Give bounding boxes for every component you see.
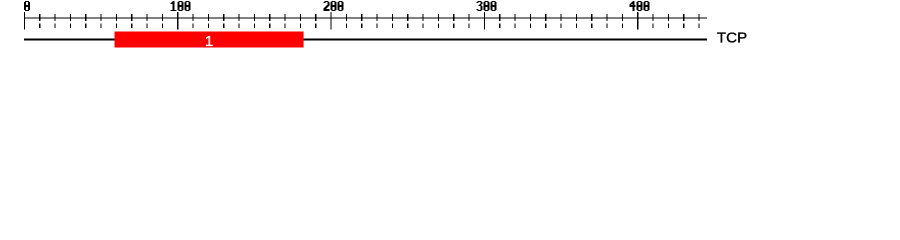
svg-text:TCP: TCP: [717, 30, 747, 47]
TCP segment 1 (red bar): [115, 32, 304, 48]
ruler minor ticks (upper row): [39, 14, 699, 21]
lower minor tick row: [39, 24, 699, 28]
major tick 100: [177, 12, 178, 29]
svg-text:1: 1: [205, 33, 213, 50]
tick label 300: [477, 1, 497, 11]
tick label 400: [630, 1, 650, 11]
tick label 100: [171, 1, 191, 11]
ruler axis line: [24, 18, 707, 19]
tick label 200: [324, 1, 344, 11]
flow baseline: [24, 39, 707, 41]
major tick 300: [484, 12, 485, 29]
major tick 200: [331, 12, 332, 29]
tick label 0: [24, 1, 30, 11]
major tick 400: [637, 12, 638, 29]
major tick 0: [24, 12, 25, 29]
